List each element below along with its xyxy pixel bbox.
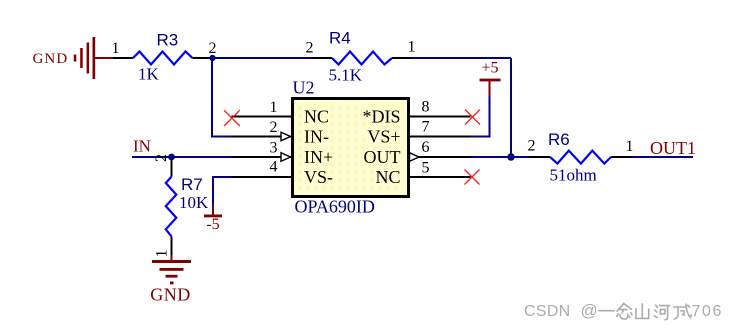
svg-text:IN+: IN+ [304, 147, 333, 167]
svg-text:3: 3 [270, 140, 278, 157]
svg-text:+5: +5 [481, 60, 498, 77]
svg-text:2: 2 [153, 154, 170, 162]
svg-text:CSDN: CSDN [524, 303, 571, 320]
svg-text:7: 7 [422, 119, 430, 136]
svg-text:1: 1 [154, 250, 171, 258]
svg-text:U2: U2 [293, 78, 315, 98]
svg-text:GND: GND [150, 285, 191, 305]
svg-text:6: 6 [422, 139, 430, 156]
svg-text:10K: 10K [179, 193, 209, 212]
svg-text:-5: -5 [206, 216, 219, 233]
svg-text:2: 2 [306, 40, 314, 57]
svg-text:4: 4 [270, 159, 278, 176]
svg-text:R4: R4 [329, 29, 351, 48]
svg-text:2: 2 [528, 138, 536, 155]
svg-text:706: 706 [692, 303, 724, 320]
svg-text:1: 1 [270, 99, 278, 116]
svg-text:R3: R3 [157, 31, 179, 50]
svg-text:NC: NC [304, 107, 329, 127]
svg-text:R7: R7 [181, 175, 203, 194]
svg-text:5: 5 [422, 160, 430, 177]
svg-text:VS-: VS- [304, 167, 333, 187]
svg-text:VS+: VS+ [367, 127, 400, 147]
svg-text:1: 1 [112, 40, 120, 57]
svg-text:IN: IN [133, 137, 151, 156]
svg-text:1: 1 [408, 39, 416, 56]
svg-text:5.1K: 5.1K [329, 66, 363, 85]
svg-text:IN-: IN- [304, 127, 329, 147]
svg-text:NC: NC [375, 167, 400, 187]
svg-text:2: 2 [270, 119, 278, 136]
svg-text:1K: 1K [138, 65, 160, 84]
svg-text:2: 2 [209, 40, 217, 57]
svg-text:8: 8 [422, 99, 430, 116]
svg-text:R6: R6 [548, 130, 570, 149]
svg-text:OPA690ID: OPA690ID [295, 197, 375, 217]
svg-text:*DIS: *DIS [362, 107, 400, 127]
svg-text:51ohm: 51ohm [550, 166, 597, 185]
svg-text:OUT1: OUT1 [650, 138, 696, 158]
svg-text:GND: GND [33, 51, 69, 67]
svg-text:@: @ [581, 301, 598, 320]
svg-text:1: 1 [626, 138, 634, 155]
svg-text:OUT: OUT [364, 147, 401, 167]
